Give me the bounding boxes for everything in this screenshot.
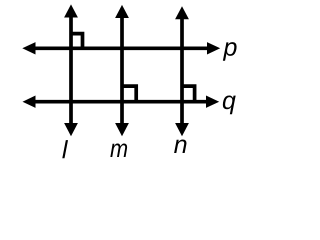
label p	[223, 42, 237, 61]
label m	[110, 144, 127, 157]
label n	[174, 140, 186, 153]
line m	[115, 5, 129, 136]
label l	[62, 140, 68, 158]
label q	[223, 96, 236, 115]
right-angle marker at m-q intersection	[122, 86, 136, 102]
line q	[23, 96, 220, 108]
line p	[22, 42, 220, 54]
right-angle marker at n-q intersection	[182, 86, 195, 102]
line l	[64, 4, 78, 136]
right-angle marker at l-p intersection	[71, 34, 83, 49]
line n	[175, 6, 189, 136]
